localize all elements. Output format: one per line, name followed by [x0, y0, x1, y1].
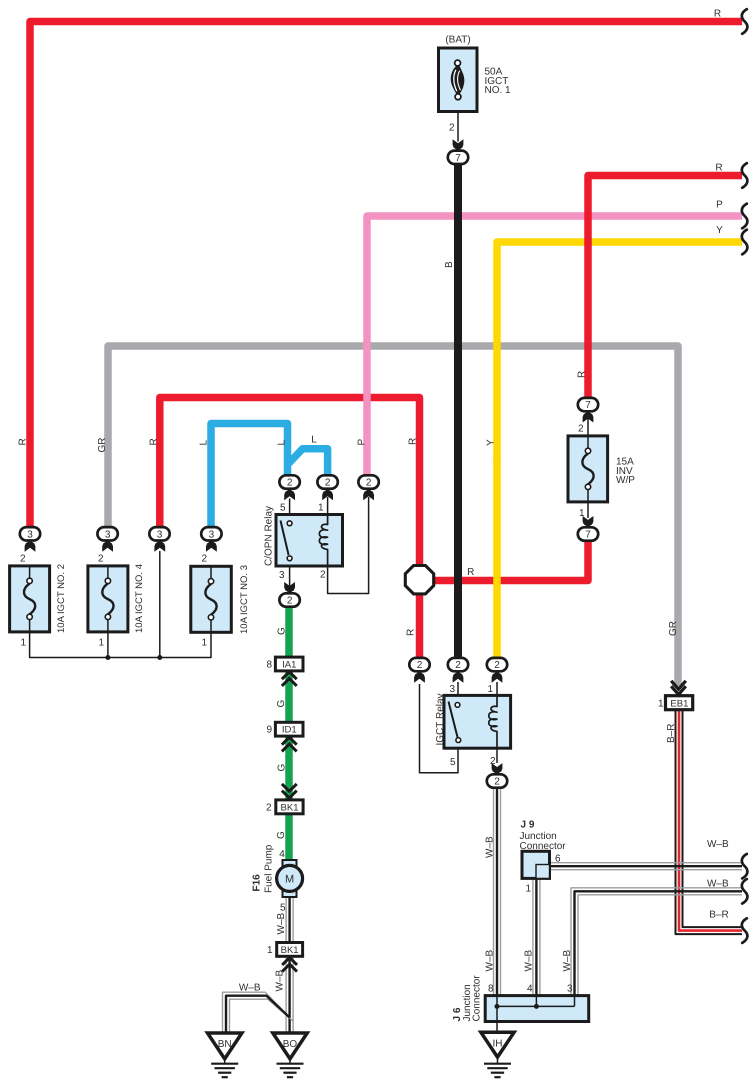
wire C/OPN relay pin 2 to pink oval [328, 497, 369, 594]
squiggle P [742, 204, 748, 229]
svg-text:BN: BN [218, 1039, 232, 1050]
fuse 10A IGCT NO.4 box [88, 566, 128, 632]
svg-text:Y: Y [716, 225, 723, 236]
svg-text:3: 3 [157, 529, 163, 540]
svg-text:6: 6 [555, 854, 561, 865]
connector ID1 box [275, 722, 303, 736]
squiggle R top [742, 9, 748, 34]
node 2 oval C/OPN pin3 [279, 593, 299, 606]
svg-text:2: 2 [201, 554, 207, 565]
svg-text:10A IGCT NO. 3: 10A IGCT NO. 3 [239, 565, 250, 634]
svg-text:B–R: B–R [709, 910, 728, 921]
motor F16 fuel pump terminals [283, 860, 297, 867]
svg-text:W–B: W–B [562, 950, 573, 972]
svg-text:2: 2 [266, 802, 272, 813]
arrow into oval 3 (red feed) [154, 541, 165, 552]
wire L blue from fuse NO.3 to C/OPN relay [211, 424, 288, 531]
svg-text:W–B: W–B [275, 970, 286, 992]
node 7 oval 15A bottom [578, 527, 598, 540]
svg-text:2: 2 [320, 570, 326, 581]
wire B black main from 50A fuse to IGCT relay [454, 162, 462, 659]
arrow into oval 2 (C/OPN pin1) [322, 489, 333, 500]
svg-text:1: 1 [98, 638, 104, 649]
svg-text:Connector: Connector [520, 841, 567, 852]
wire 15A fuse pin 2 link [587, 410, 589, 436]
chevrons below IA1 [282, 672, 297, 686]
ground BN stem [224, 1059, 226, 1064]
wire Y yellow lower to IGCT relay [493, 455, 501, 659]
arrow into oval 2 (red IGCT) [414, 672, 425, 683]
arrow into oval 2 (black IGCT) [453, 672, 464, 683]
svg-text:2: 2 [455, 660, 461, 671]
wire 50A fuse to battery node arrow [457, 112, 459, 142]
svg-text:BK1: BK1 [281, 945, 299, 956]
fuse 50A IGCT NO.1 element [451, 65, 464, 95]
relay IGCT box [444, 695, 511, 748]
svg-text:5: 5 [280, 503, 286, 514]
connector BK1 upper box [276, 800, 303, 814]
chevrons below BK1 lower [282, 958, 297, 972]
wire P pink from right edge to C/OPN relay [367, 216, 742, 477]
svg-text:4: 4 [527, 984, 533, 995]
arrow into oval 2 (IGCT pin2) [492, 763, 503, 774]
node octagon junction [405, 566, 433, 594]
squiggle R right [742, 163, 748, 188]
svg-text:3: 3 [279, 570, 285, 581]
fuse 10A IGCT NO.2 box [10, 566, 50, 632]
svg-text:L: L [311, 435, 317, 446]
svg-text:B–R: B–R [666, 724, 677, 743]
wire IGCT relay pin 2 link [496, 742, 498, 763]
wire W-B right edge to J6 pin 3 [571, 888, 742, 996]
svg-text:7: 7 [585, 400, 591, 411]
squiggle Y [742, 230, 748, 255]
svg-text:W–B: W–B [707, 879, 729, 890]
node 7 oval (battery feed) [448, 151, 468, 164]
ground BN symbol [211, 1063, 238, 1065]
node 3 oval red feed [149, 527, 169, 540]
ground IH triangle [481, 1032, 514, 1057]
wire B-R from EB1 to right edge [676, 710, 743, 935]
node 2 oval C/OPN pin5 [279, 475, 299, 488]
svg-text:G: G [276, 700, 287, 708]
connector J6 internal links [496, 996, 498, 1022]
arrow into oval 3 (fuse NO.4) [102, 541, 113, 552]
node 2 oval pink [358, 475, 378, 488]
svg-text:1: 1 [267, 945, 273, 956]
svg-text:8: 8 [488, 984, 494, 995]
svg-text:L: L [199, 440, 210, 446]
squiggle W-B 1 [742, 854, 748, 879]
junction dot bus/fuse NO.4 [105, 655, 110, 660]
svg-text:8: 8 [266, 660, 272, 671]
wire C/OPN relay pin 5 link [289, 499, 291, 521]
arrow into oval 2 (pink) [363, 489, 374, 500]
svg-text:2: 2 [494, 660, 500, 671]
svg-text:R: R [715, 163, 722, 174]
relay IGCT switch [449, 702, 458, 738]
relay IGCT coil [489, 695, 497, 748]
node 3 oval fuse NO.4 [97, 527, 117, 540]
svg-text:R: R [714, 9, 721, 20]
wire fuse pin-1 bus [30, 632, 211, 658]
relay C/OPN box [276, 515, 343, 567]
fuse 15A INV W/P element [587, 436, 589, 449]
wire L blue branch hook to C/OPN relay pin 1 [289, 449, 328, 477]
svg-text:R: R [408, 438, 419, 445]
wire red oval 3 drop to fuse ground bus [159, 551, 161, 658]
fuse 15A INV W/P box [568, 436, 608, 502]
wire 15A fuse pin 1 link [587, 502, 589, 518]
svg-text:J 9: J 9 [521, 820, 535, 831]
ground BO stem [289, 1059, 291, 1064]
ground BO triangle [273, 1033, 307, 1059]
svg-text:W–B: W–B [707, 839, 729, 850]
wire IGCT relay pin 5 to red oval [420, 684, 459, 773]
svg-text:W–B: W–B [239, 983, 261, 994]
svg-text:W–B: W–B [524, 950, 535, 972]
svg-text:P: P [716, 200, 723, 211]
fuse 10A IGCT NO.3 box [191, 566, 232, 632]
svg-text:IA1: IA1 [282, 660, 296, 671]
arrow into oval 2 (C/OPN pin3) [284, 582, 295, 593]
svg-text:5: 5 [450, 757, 456, 768]
svg-text:(BAT): (BAT) [445, 35, 470, 46]
svg-text:3: 3 [209, 529, 215, 540]
svg-text:9: 9 [266, 725, 272, 736]
arrow into oval 2 (C/OPN pin5) [284, 489, 295, 500]
relay C/OPN coil [319, 515, 327, 567]
squiggle W-B 2 [742, 879, 748, 904]
connector BK1 lower box [277, 943, 303, 957]
svg-text:BK1: BK1 [281, 802, 299, 813]
svg-text:F16: F16 [252, 874, 263, 892]
wire R red top-right to 15A INV W/P fuse [588, 176, 742, 400]
svg-text:3: 3 [105, 529, 111, 540]
svg-text:2: 2 [287, 596, 293, 607]
svg-text:W–B: W–B [276, 913, 287, 935]
wire W-B BK1 to ground BO [285, 956, 287, 1032]
svg-text:W–B: W–B [485, 836, 496, 858]
svg-text:G: G [277, 764, 288, 772]
arrow into oval 3 (fuse NO.2) [25, 541, 36, 552]
wire IGCT relay pin 1 link [496, 682, 498, 707]
ground BO symbol [277, 1063, 304, 1065]
svg-text:M: M [285, 874, 294, 886]
connector J9 box [522, 851, 550, 878]
svg-text:P: P [357, 439, 368, 446]
wire R red top-left rail [30, 22, 742, 531]
node 7 oval 15A top [578, 398, 598, 411]
arrow into oval 7 (15A top) [583, 411, 594, 422]
wire R red octagon junction to 15A fuse bottom [428, 540, 588, 581]
chevrons above EB1 [671, 681, 686, 695]
ground IH stem [497, 1057, 499, 1064]
svg-text:1: 1 [318, 503, 324, 514]
arrow into oval 3 (fuse NO.3) [206, 541, 217, 552]
svg-text:4: 4 [279, 849, 285, 860]
svg-text:5: 5 [280, 903, 286, 914]
svg-text:R: R [149, 438, 160, 445]
ground IH symbol [484, 1063, 511, 1065]
svg-text:1: 1 [201, 638, 207, 649]
relay C/OPN switch [281, 521, 289, 556]
svg-text:W/P: W/P [616, 475, 635, 486]
svg-text:C/OPN Relay: C/OPN Relay [264, 506, 275, 566]
wire IGCT relay pin 3 link [457, 682, 459, 702]
svg-text:BO: BO [283, 1039, 298, 1050]
svg-text:2: 2 [287, 478, 293, 489]
svg-text:7: 7 [585, 530, 591, 541]
svg-text:EB1: EB1 [670, 699, 688, 710]
fuse 10A IGCT NO.3 element [210, 566, 212, 579]
svg-text:L: L [277, 440, 288, 446]
junction dot bus/red drop [157, 655, 162, 660]
motor F16 fuel pump body [277, 865, 303, 891]
svg-text:10A IGCT NO. 2: 10A IGCT NO. 2 [56, 564, 67, 633]
svg-text:G: G [276, 831, 287, 839]
node 2 oval yellow IGCT [487, 658, 507, 671]
node 2 oval C/OPN pin1 [317, 475, 337, 488]
connector J6 box [485, 996, 589, 1022]
squiggle B-R [742, 918, 748, 943]
svg-text:2: 2 [366, 478, 372, 489]
svg-text:Y: Y [486, 439, 497, 446]
wire G green C/OPN relay to fuel pump [285, 606, 293, 658]
svg-text:1: 1 [658, 698, 664, 709]
node 3 oval fuse NO.3 [201, 527, 221, 540]
svg-text:1: 1 [487, 684, 493, 695]
svg-text:2: 2 [578, 424, 584, 435]
svg-text:W–B: W–B [485, 950, 496, 972]
svg-text:Fuel Pump: Fuel Pump [264, 844, 275, 893]
svg-text:2: 2 [449, 123, 455, 134]
svg-text:R: R [406, 629, 417, 636]
wire W-B branch to ground BN [223, 992, 287, 1032]
wire J6 to IH ground [496, 1022, 498, 1033]
svg-text:1: 1 [20, 638, 26, 649]
svg-text:IGCT Relay: IGCT Relay [435, 693, 446, 745]
connector EB1 box [666, 696, 693, 710]
svg-text:2: 2 [20, 554, 26, 565]
wire W-B J9 pin 6 to right edge [550, 862, 743, 864]
wire C/OPN relay pin 3 link [289, 561, 291, 589]
wire W-B J9 pin 1 to J6 pin 4 [532, 878, 534, 995]
svg-text:Connector: Connector [472, 975, 483, 1022]
wire W-B IGCT relay oval to J6 pin 8 [493, 788, 495, 996]
svg-text:7: 7 [455, 153, 461, 164]
arrow into oval 7 (15A bottom) [583, 516, 594, 527]
svg-text:2: 2 [98, 554, 104, 565]
svg-text:1: 1 [525, 884, 531, 895]
node 3 oval fuse NO.2 [20, 527, 40, 540]
node 2 oval black IGCT [448, 658, 468, 671]
svg-text:3: 3 [449, 684, 455, 695]
svg-text:GR: GR [97, 438, 108, 453]
svg-text:2: 2 [325, 478, 331, 489]
fuse 10A IGCT NO.2 element [29, 566, 31, 579]
arrow into node 7 top [453, 139, 464, 150]
svg-text:3: 3 [567, 984, 573, 995]
svg-text:3: 3 [27, 529, 33, 540]
junction dot J6 pin4 [534, 1004, 539, 1009]
chevrons above BK1 upper [282, 784, 297, 798]
svg-text:R: R [467, 567, 474, 578]
svg-text:ID1: ID1 [282, 725, 297, 736]
svg-text:GR: GR [668, 621, 679, 636]
wire Y yellow upper from right edge [497, 242, 742, 460]
svg-text:IH: IH [493, 1038, 503, 1049]
svg-text:2: 2 [494, 777, 500, 788]
node 2 oval IGCT pin2 [487, 774, 507, 787]
fuse 10A IGCT NO.4 element [107, 566, 109, 579]
junction dot J6 pin8 [495, 1004, 500, 1009]
svg-text:R: R [18, 438, 29, 445]
fuse 50A IGCT NO.1 box [439, 48, 478, 112]
wire R red feed to fuses NO.2/NO.3 row [160, 398, 420, 569]
connector IA1 box [275, 657, 303, 671]
svg-text:R: R [577, 371, 588, 378]
svg-text:NO. 1: NO. 1 [485, 85, 512, 96]
wire R red octagon down to IGCT relay [416, 592, 424, 659]
wire W-B fuel pump to BK1 [285, 897, 287, 943]
chevrons below ID1 [282, 737, 297, 751]
node 2 oval red IGCT [409, 658, 429, 671]
arrow into oval 2 (yellow IGCT) [492, 672, 503, 683]
svg-text:10A IGCT NO. 4: 10A IGCT NO. 4 [134, 564, 145, 633]
svg-text:B: B [444, 261, 455, 268]
wire GR gray main (fuse NO.4 to EB1) [108, 346, 678, 686]
svg-text:2: 2 [417, 660, 423, 671]
wire C/OPN relay pin 1 link [327, 497, 329, 524]
svg-text:G: G [277, 627, 288, 635]
ground BN triangle [208, 1033, 242, 1059]
